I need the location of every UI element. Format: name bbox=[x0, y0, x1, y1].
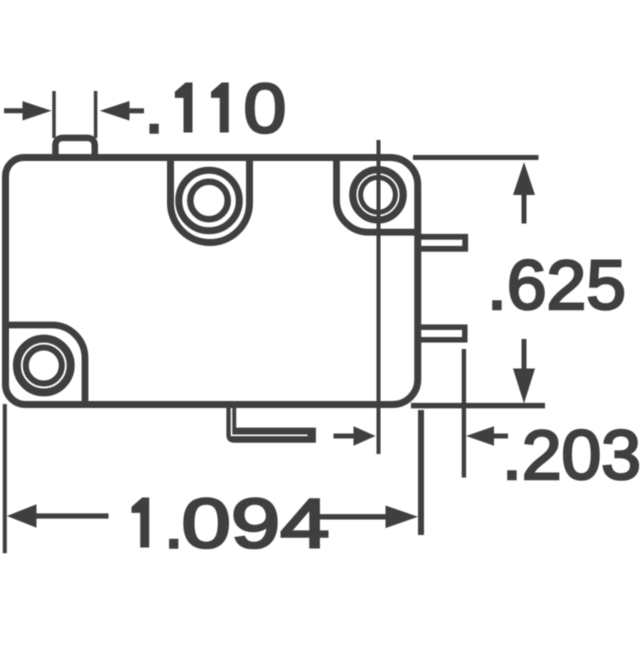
terminal T3 slot bbox=[232, 408, 308, 435]
terminal T2 lower right bbox=[418, 327, 465, 340]
switch body outline bbox=[6, 158, 418, 405]
plunger button bbox=[55, 138, 94, 156]
dim 1.094 right arrow bbox=[318, 514, 386, 519]
svg-text:0: 0 bbox=[244, 70, 287, 148]
top-right mounting ear bbox=[337, 158, 418, 232]
terminal T3 bottom solder hook bbox=[226, 405, 316, 443]
terminal T1 upper right bbox=[418, 237, 465, 249]
dim .203 extension line bbox=[462, 349, 466, 478]
dim .203 right-pointing arrow bbox=[334, 434, 355, 439]
actuator boss outer circle bbox=[179, 170, 240, 231]
dim .625 down arrow bbox=[522, 339, 527, 369]
dim 1.094 extension line left bbox=[3, 404, 7, 553]
dim .203 centre line through top-right hole bbox=[377, 140, 381, 454]
label 1.094 bbox=[132, 498, 150, 548]
dim .625 top reference line bbox=[413, 155, 539, 160]
svg-text:.203: .203 bbox=[502, 416, 640, 494]
dim .203 left-pointing arrow bbox=[466, 426, 494, 445]
top-right hole outer circle bbox=[353, 170, 403, 220]
top-right hole inner circle bbox=[361, 177, 396, 212]
bottom-left hole inner circle bbox=[26, 348, 62, 384]
svg-text:.: . bbox=[144, 70, 163, 148]
bottom-left hole outer circle bbox=[17, 339, 71, 393]
bottom-left mounting ear bbox=[7, 325, 85, 403]
dim 1.094 extension line right bbox=[418, 410, 424, 535]
dim .110 extension line left bbox=[52, 91, 56, 138]
actuator boss U-shape bbox=[171, 158, 250, 243]
actuator boss inner circle bbox=[190, 182, 228, 220]
dim 1.094 left arrow bbox=[7, 504, 37, 528]
dim .110 left arrow bbox=[4, 108, 24, 113]
dim .625 bottom reference line bbox=[411, 403, 545, 409]
svg-text:094: 094 bbox=[182, 485, 330, 563]
dim .110 right arrow bbox=[100, 101, 130, 121]
dim .110 extension line right bbox=[94, 91, 98, 138]
svg-text:.625: .625 bbox=[487, 246, 626, 324]
dim .625 up arrow bbox=[513, 162, 535, 195]
